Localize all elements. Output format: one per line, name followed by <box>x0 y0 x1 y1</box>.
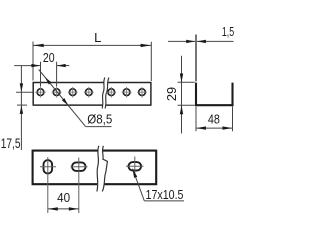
top view break line left <box>102 78 105 109</box>
dimension 20 arrow left <box>31 64 40 67</box>
diameter 8,5 leader arrow upper <box>45 77 51 84</box>
svg-text:17x10.5: 17x10.5 <box>146 188 184 202</box>
dimension 48 arrow left <box>196 126 206 129</box>
dimension 1,5 arrow left <box>186 40 195 43</box>
dimension 29 arrow up <box>180 105 183 114</box>
hole 4 <box>85 89 92 96</box>
svg-text:29: 29 <box>165 87 179 101</box>
dimension 1,5 line left <box>168 40 195 42</box>
dimension 20 line right tail <box>57 65 70 67</box>
slot size leader arrow <box>132 168 137 178</box>
hole 7 <box>139 89 146 96</box>
dimension 20 line left tail <box>14 65 40 67</box>
dimension 40 arrow left <box>48 207 58 210</box>
dimension 48 line <box>196 127 233 129</box>
hole 2 <box>53 89 60 96</box>
slot size leader underline <box>144 200 184 202</box>
svg-text:1,5: 1,5 <box>222 24 234 39</box>
dimension L arrow right <box>141 44 151 47</box>
hole 6 <box>123 89 130 96</box>
svg-text:L: L <box>94 30 101 45</box>
dimension L line <box>33 44 151 46</box>
dimension 17,5 lower tick <box>17 104 27 106</box>
dimension 1,5 line right <box>197 40 234 42</box>
hole 3 <box>69 89 76 96</box>
dimension 29 arrow down <box>180 74 183 83</box>
hole 1 <box>37 89 44 96</box>
bottom view: channel side outline (with break gap) <box>33 150 157 186</box>
dimension 20 extension lines <box>41 62 57 87</box>
svg-text:17,5: 17,5 <box>1 136 21 151</box>
svg-text:48: 48 <box>208 111 220 126</box>
dimension 17,5 arrow down <box>20 83 23 92</box>
svg-text:20: 20 <box>43 51 55 65</box>
slot 3 (horizontal) <box>129 162 142 170</box>
top view break line right <box>105 78 109 109</box>
svg-text:Ø8,5: Ø8,5 <box>87 111 112 126</box>
dimension 40 line <box>48 208 79 210</box>
dimension L arrow left <box>33 44 43 47</box>
diameter 8,5 leader line <box>39 70 86 127</box>
dimension 20 arrow right <box>57 64 66 67</box>
wall thickness extension line <box>195 35 197 82</box>
dimension L extension lines <box>33 42 151 82</box>
dimension 48 arrow right <box>223 126 233 129</box>
dimension 17,5 arrow up <box>20 105 23 114</box>
dimension 1,5 arrow right <box>197 40 206 43</box>
hole 5 <box>108 89 115 96</box>
dimension 29 extension lines <box>178 82 195 105</box>
diameter 8,5 leader arrow lower <box>62 98 68 105</box>
cross-section U-profile <box>196 83 233 106</box>
dimension 40 arrow right <box>69 207 79 210</box>
diameter 8,5 leader underline <box>86 126 112 128</box>
dimension 29 line <box>181 56 183 134</box>
dimension 17,5 line <box>20 66 22 150</box>
slot 2 (horizontal) <box>72 162 86 171</box>
top view: channel face outline (with break gap) <box>33 82 151 106</box>
dimension 48 extension lines <box>196 107 233 132</box>
bottom view break line right (with flap) <box>102 146 107 192</box>
svg-text:40: 40 <box>57 190 70 205</box>
slot 1 (vertical) <box>44 160 53 173</box>
slot size leader line <box>133 169 145 201</box>
bottom view break line left <box>97 146 99 192</box>
bar centerline extension (17,5 upper tick) <box>16 91 33 93</box>
